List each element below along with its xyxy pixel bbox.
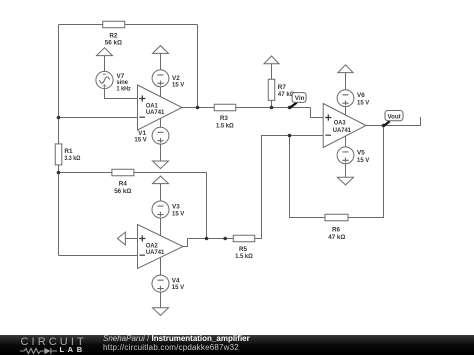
label V5 xyxy=(357,150,370,164)
svg-text:Vout: Vout xyxy=(388,113,402,120)
wire OA1 output xyxy=(182,107,214,109)
svg-text:Vin: Vin xyxy=(295,95,305,102)
resistor R4 xyxy=(112,169,134,176)
label R7 xyxy=(278,84,295,98)
footer url text xyxy=(103,344,239,353)
wire OA3 negative supply to V5 xyxy=(345,136,347,147)
svg-text:1.5 kΩ: 1.5 kΩ xyxy=(216,122,234,129)
footer title text xyxy=(103,335,250,344)
svg-text:15 V: 15 V xyxy=(357,157,370,164)
wire V5 to ground xyxy=(345,164,347,178)
node OA3 inverting feedback junction xyxy=(288,134,292,138)
node R4 to OA2 output junction xyxy=(205,237,209,241)
wire left rail lower xyxy=(58,165,60,256)
wire feedback node down xyxy=(290,136,326,218)
node R7 bottom junction xyxy=(270,106,274,110)
wire step down to OA3 plus input xyxy=(311,108,324,118)
wire R5 right up to OA3 inverting input xyxy=(255,136,323,239)
logo resistor zigzag xyxy=(20,348,44,353)
svg-text:R2: R2 xyxy=(109,32,118,39)
flag Vout xyxy=(384,111,403,126)
wire OA1 inverting input xyxy=(59,117,138,119)
svg-text:1 kHz: 1 kHz xyxy=(117,85,131,92)
flag Vin xyxy=(290,93,306,108)
resistor R6 xyxy=(325,214,348,221)
svg-text:V6: V6 xyxy=(357,92,365,99)
wire V7 to OA1 non-inverting input xyxy=(105,89,138,99)
logo LAB xyxy=(60,346,86,354)
svg-text:15 V: 15 V xyxy=(172,82,185,89)
svg-text:15 V: 15 V xyxy=(172,284,185,291)
logo CIRCUIT xyxy=(21,337,87,348)
ground below V1 xyxy=(153,161,169,169)
label OA3 xyxy=(333,120,352,134)
svg-text:56 kΩ: 56 kΩ xyxy=(114,188,131,195)
label R5 xyxy=(235,246,253,260)
resistor R7 xyxy=(268,79,275,100)
svg-text:UA741: UA741 xyxy=(146,249,165,256)
wire R4 left xyxy=(59,172,112,174)
wire V1 to ground xyxy=(160,144,162,161)
label R6 xyxy=(328,226,345,240)
voltage source V7 sine xyxy=(96,71,113,88)
svg-text:15 V: 15 V xyxy=(134,137,147,144)
arrow node above R7 xyxy=(264,56,279,79)
svg-text:UA741: UA741 xyxy=(146,109,165,116)
resistor R2 xyxy=(103,21,125,28)
label OA2 xyxy=(146,242,165,256)
node R5 left junction xyxy=(223,237,227,241)
wire OA3 output xyxy=(366,117,421,126)
wire top left horizontal xyxy=(59,24,103,26)
label V4 xyxy=(172,277,185,291)
label R2 xyxy=(105,32,122,46)
node Vout junction xyxy=(382,124,386,128)
svg-text:R7: R7 xyxy=(278,84,287,91)
ground below V4 xyxy=(153,308,169,316)
wire V6 to OA3 positive supply xyxy=(345,107,347,115)
arrow node above V6 xyxy=(338,65,353,90)
wire V4 to ground xyxy=(160,292,162,308)
wire V3 to OA2 positive supply xyxy=(160,218,162,236)
wire R6 right up to Vout xyxy=(348,126,384,218)
arrow node above V7 xyxy=(97,48,113,72)
svg-text:56 kΩ: 56 kΩ xyxy=(105,40,122,47)
node OA1 inverting rail junction xyxy=(57,116,61,120)
svg-text:1.5 kΩ: 1.5 kΩ xyxy=(235,253,253,260)
resistor R5 xyxy=(233,235,255,242)
voltage source V6 xyxy=(337,90,354,107)
voltage source V4 xyxy=(152,275,169,292)
node OA1 output feedback junction xyxy=(196,106,200,110)
svg-text:R6: R6 xyxy=(332,226,341,233)
voltage source V3 xyxy=(152,201,169,218)
svg-text:R4: R4 xyxy=(119,180,128,187)
op-amp OA2 xyxy=(138,225,184,269)
wire OA1 negative supply to V1 xyxy=(160,118,162,127)
svg-text:R5: R5 xyxy=(239,246,248,253)
op-amp OA1 xyxy=(138,85,183,130)
svg-text:R3: R3 xyxy=(220,115,229,122)
OA1 plus minus xyxy=(139,95,145,117)
arrow node above V2 xyxy=(153,46,169,70)
wire bottom-left to OA2 inverting input xyxy=(59,255,138,257)
node R1 bottom junction xyxy=(57,171,61,175)
logo diode xyxy=(44,348,57,354)
label V3 xyxy=(172,204,185,218)
label R3 xyxy=(216,115,234,129)
label V1 xyxy=(134,130,147,144)
label V6 xyxy=(357,92,370,107)
svg-text:UA741: UA741 xyxy=(333,127,352,134)
voltage source V5 xyxy=(337,147,354,164)
wire OA2 negative supply to V4 xyxy=(160,257,162,275)
svg-text:15 V: 15 V xyxy=(172,210,185,217)
svg-text:47 kΩ: 47 kΩ xyxy=(328,234,345,241)
resistor R3 xyxy=(214,104,236,111)
node Vin junction xyxy=(288,106,292,110)
arrow node at OA2 non-inverting input xyxy=(117,232,137,245)
svg-text:V5: V5 xyxy=(357,150,365,157)
voltage source V2 xyxy=(152,70,169,87)
label R4 xyxy=(114,180,131,194)
wire top-right vertical to OA1 output xyxy=(197,25,199,108)
label OA1 xyxy=(146,102,165,116)
label V7 xyxy=(117,73,131,93)
svg-text:3.3 kΩ: 3.3 kΩ xyxy=(64,155,80,162)
wire top right horizontal xyxy=(125,24,198,26)
wire R7 bottom xyxy=(271,100,273,107)
resistor R1 xyxy=(55,144,62,165)
arrow node above V3 xyxy=(153,176,169,201)
ground below V5 xyxy=(338,177,354,185)
voltage source V1 xyxy=(152,127,169,144)
wire V2 to OA1 positive supply xyxy=(160,87,162,97)
svg-text:OA3: OA3 xyxy=(334,120,346,127)
label R1 xyxy=(64,148,80,162)
OA2 plus minus xyxy=(139,235,145,255)
wire R3 to Vin node xyxy=(236,107,311,109)
wire R4 right xyxy=(134,172,207,174)
label V2 xyxy=(172,75,185,89)
svg-text:15 V: 15 V xyxy=(357,99,370,106)
op-amp pin polarity signs xyxy=(139,95,331,255)
op-amp OA3 xyxy=(323,104,366,148)
wire vertical R4 to OA2 output node xyxy=(206,173,208,239)
OA3 plus minus xyxy=(325,114,331,135)
bottom footer bar xyxy=(0,335,474,355)
wire OA2 output step xyxy=(183,239,233,247)
wire left rail upper xyxy=(58,25,60,144)
svg-text:R1: R1 xyxy=(64,148,73,155)
